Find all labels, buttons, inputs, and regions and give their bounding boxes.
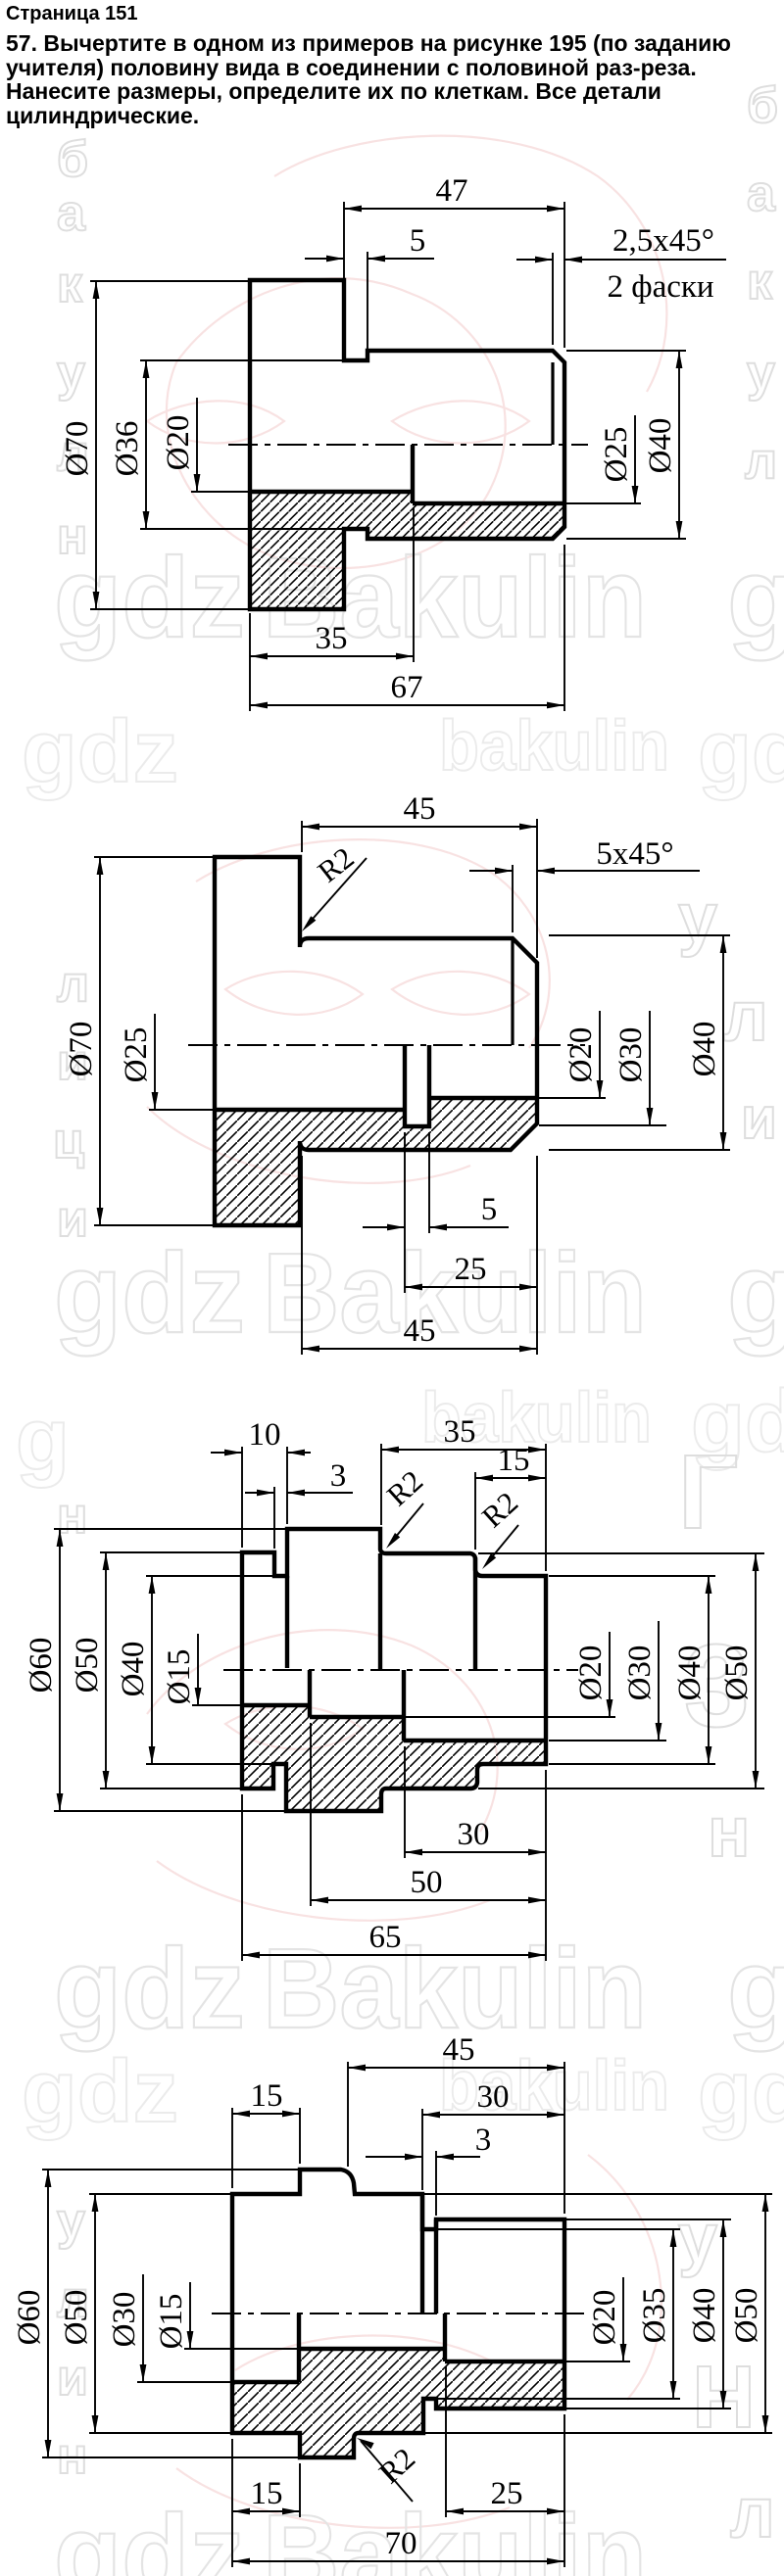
svg-text:к: к bbox=[747, 254, 773, 310]
svg-text:Ø70: Ø70 bbox=[64, 1022, 99, 1077]
svg-text:Ø20: Ø20 bbox=[161, 415, 196, 471]
svg-text:g: g bbox=[727, 1229, 784, 1357]
svg-text:б: б bbox=[57, 131, 88, 188]
svg-text:к: к bbox=[57, 257, 83, 313]
svg-text:н: н bbox=[57, 1488, 87, 1545]
svg-text:g: g bbox=[16, 1391, 70, 1489]
svg-text:и: и bbox=[57, 2350, 88, 2407]
svg-text:gd: gd bbox=[698, 2043, 784, 2141]
svg-text:а: а bbox=[57, 185, 86, 242]
svg-text:gdz: gdz bbox=[22, 703, 178, 801]
svg-text:и: и bbox=[57, 1191, 88, 1248]
svg-text:Ø40: Ø40 bbox=[116, 1642, 151, 1697]
svg-text:Ø30: Ø30 bbox=[107, 2292, 142, 2348]
svg-text:у: у bbox=[747, 345, 775, 402]
svg-text:Ø20: Ø20 bbox=[573, 1646, 609, 1701]
svg-text:л: л bbox=[730, 2474, 775, 2552]
svg-text:Ø70: Ø70 bbox=[60, 421, 95, 477]
svg-text:5: 5 bbox=[410, 223, 426, 259]
svg-text:л: л bbox=[57, 956, 89, 1013]
svg-text:gdz: gdz bbox=[54, 2491, 245, 2576]
svg-text:Ø15: Ø15 bbox=[162, 1649, 197, 1705]
svg-text:2,5x45°: 2,5x45° bbox=[612, 223, 714, 259]
svg-text:gd: gd bbox=[698, 703, 784, 801]
svg-text:Ø40: Ø40 bbox=[672, 1646, 708, 1701]
svg-text:Ø50: Ø50 bbox=[59, 2290, 94, 2346]
svg-text:47: 47 bbox=[436, 173, 468, 209]
svg-text:30: 30 bbox=[477, 2079, 510, 2115]
svg-text:g: g bbox=[727, 1925, 784, 2052]
svg-text:10: 10 bbox=[249, 1417, 281, 1453]
svg-text:gdz: gdz bbox=[22, 2043, 178, 2141]
svg-text:а: а bbox=[747, 166, 776, 222]
svg-text:Ø35: Ø35 bbox=[637, 2288, 672, 2344]
svg-text:30: 30 bbox=[458, 1817, 490, 1852]
svg-text:25: 25 bbox=[491, 2476, 523, 2511]
svg-text:у: у bbox=[57, 2193, 85, 2250]
svg-text:gdz: gdz bbox=[54, 1925, 245, 2052]
svg-text:gdz: gdz bbox=[54, 1229, 245, 1357]
svg-text:Ø25: Ø25 bbox=[119, 1027, 154, 1083]
svg-text:ц: ц bbox=[53, 1113, 84, 1169]
svg-text:45: 45 bbox=[404, 1313, 436, 1349]
svg-text:у: у bbox=[57, 345, 85, 402]
svg-text:15: 15 bbox=[251, 2078, 283, 2114]
svg-text:Bakulin: Bakulin bbox=[263, 1229, 647, 1357]
svg-text:Ø36: Ø36 bbox=[110, 421, 145, 477]
svg-text:Ø30: Ø30 bbox=[613, 1027, 649, 1083]
svg-text:15: 15 bbox=[251, 2476, 283, 2511]
svg-text:б: б bbox=[747, 77, 778, 134]
svg-text:Ø60: Ø60 bbox=[24, 1638, 59, 1693]
svg-text:g: g bbox=[727, 534, 784, 661]
svg-text:н: н bbox=[708, 1793, 751, 1872]
svg-text:у: у bbox=[678, 2200, 717, 2278]
svg-text:н: н bbox=[57, 2428, 87, 2485]
svg-text:Ø50: Ø50 bbox=[719, 1646, 755, 1701]
svg-text:15: 15 bbox=[498, 1443, 530, 1478]
svg-text:Ø20: Ø20 bbox=[563, 1027, 599, 1083]
svg-text:Bakulin: Bakulin bbox=[263, 2491, 647, 2576]
svg-text:bakulin: bakulin bbox=[439, 707, 669, 786]
svg-text:35: 35 bbox=[316, 621, 348, 656]
svg-text:3: 3 bbox=[330, 1458, 347, 1494]
svg-text:67: 67 bbox=[391, 670, 423, 705]
svg-text:Ø50: Ø50 bbox=[70, 1638, 105, 1693]
svg-text:45: 45 bbox=[443, 2032, 475, 2068]
svg-text:Ø40: Ø40 bbox=[687, 2288, 722, 2344]
svg-text:45: 45 bbox=[404, 791, 436, 827]
svg-text:Г: Г bbox=[678, 1432, 738, 1550]
svg-text:Ø40: Ø40 bbox=[643, 418, 678, 474]
svg-text:Ø60: Ø60 bbox=[12, 2290, 47, 2346]
svg-text:у: у bbox=[678, 880, 717, 958]
svg-text:2 фаски: 2 фаски bbox=[607, 269, 713, 305]
svg-text:Ø30: Ø30 bbox=[622, 1646, 658, 1701]
svg-text:25: 25 bbox=[455, 1252, 487, 1287]
svg-text:35: 35 bbox=[444, 1414, 476, 1450]
svg-text:Ø25: Ø25 bbox=[599, 427, 634, 483]
svg-text:н: н bbox=[57, 508, 87, 565]
svg-text:Ø15: Ø15 bbox=[154, 2294, 189, 2350]
svg-text:5: 5 bbox=[481, 1192, 498, 1227]
svg-text:л: л bbox=[745, 433, 777, 490]
svg-text:50: 50 bbox=[411, 1865, 443, 1900]
svg-text:Ø50: Ø50 bbox=[729, 2288, 764, 2344]
svg-text:70: 70 bbox=[385, 2526, 417, 2561]
svg-text:3: 3 bbox=[475, 2123, 492, 2158]
svg-text:Ø40: Ø40 bbox=[687, 1022, 722, 1077]
svg-text:л: л bbox=[723, 978, 768, 1056]
svg-text:65: 65 bbox=[369, 1920, 402, 1955]
svg-text:и: и bbox=[741, 1085, 777, 1151]
svg-text:5x45°: 5x45° bbox=[596, 836, 673, 872]
svg-text:Ø20: Ø20 bbox=[587, 2290, 622, 2346]
